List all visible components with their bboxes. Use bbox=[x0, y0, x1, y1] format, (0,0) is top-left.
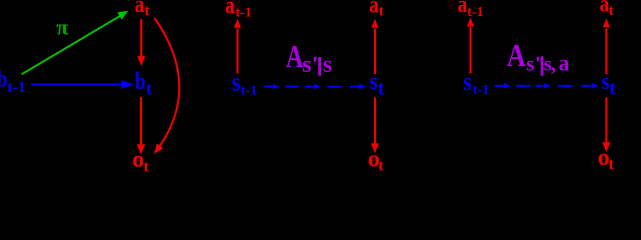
svg-text:a: a bbox=[225, 0, 235, 18]
svg-text:s: s bbox=[526, 52, 534, 76]
svg-text:A: A bbox=[507, 39, 527, 74]
svg-text:π: π bbox=[56, 14, 68, 39]
node a_t-1 (panel 2) bbox=[225, 0, 252, 20]
node o_t (panel 1) bbox=[132, 147, 149, 176]
wire red curved arrow a_t to o_t bbox=[154, 18, 179, 154]
svg-text:s: s bbox=[302, 52, 311, 78]
node b_t-1 bbox=[0, 66, 26, 97]
svg-text:a: a bbox=[559, 50, 570, 76]
svg-text:t: t bbox=[379, 4, 384, 20]
svg-text:t: t bbox=[378, 78, 385, 100]
label A_s'|s,a bbox=[507, 39, 569, 76]
svg-text:t-1: t-1 bbox=[236, 5, 252, 20]
wire red arrow s_t-1 up to a_t-1 bbox=[234, 19, 241, 74]
node a_t (panel 3) bbox=[600, 0, 614, 19]
wire red arrow s_t up to a_t (panel 3) bbox=[603, 19, 610, 75]
node s_t (panel 3) bbox=[602, 67, 617, 99]
svg-text:a: a bbox=[135, 0, 145, 17]
wire blue dashed arrow s_t-1 to s_t (panel 2) bbox=[264, 84, 366, 90]
wire blue dashed arrow s_t-1 to s_t (panel 3) bbox=[495, 83, 599, 89]
node a_t (panel 2) bbox=[369, 0, 384, 20]
wire red arrow s_t down to o_t (panel 3) bbox=[602, 98, 610, 153]
node s_t (panel 2) bbox=[370, 67, 385, 99]
svg-text:t-1: t-1 bbox=[467, 5, 483, 20]
wire red arrow b_t to o_t bbox=[137, 97, 145, 155]
svg-text:b: b bbox=[135, 68, 145, 95]
node s_t-1 (panel 2) bbox=[232, 69, 257, 98]
label A_s'|s bbox=[286, 40, 332, 78]
node s_t-1 (panel 3) bbox=[463, 68, 489, 97]
node b_t bbox=[135, 68, 152, 99]
svg-text:t: t bbox=[609, 77, 616, 99]
node o_t (panel 3) bbox=[598, 145, 615, 173]
svg-text:a: a bbox=[369, 0, 379, 18]
wire blue arrow b_t-1 to b_t bbox=[31, 80, 134, 89]
wire red arrow s_t up to a_t (panel 2) bbox=[371, 19, 378, 74]
wire green arrow b_t-1 to a_t bbox=[22, 11, 129, 75]
svg-text:t: t bbox=[608, 154, 614, 173]
svg-text:s: s bbox=[323, 52, 332, 78]
svg-text:t: t bbox=[144, 159, 150, 176]
wire red arrow a_t to b_t bbox=[137, 19, 145, 66]
node a_t-1 (panel 3) bbox=[458, 0, 484, 20]
wire red arrow s_t down to o_t (panel 2) bbox=[371, 98, 379, 154]
svg-text:s: s bbox=[232, 69, 240, 97]
svg-text:t: t bbox=[144, 2, 150, 19]
node o_t (panel 2) bbox=[368, 147, 384, 175]
svg-text:a: a bbox=[458, 0, 468, 17]
svg-text:t: t bbox=[609, 3, 614, 19]
wire red arrow s_t-1 up to a_t-1 (panel 3) bbox=[467, 18, 474, 74]
svg-text:t-1: t-1 bbox=[7, 79, 26, 96]
svg-text:,: , bbox=[551, 52, 556, 76]
svg-text:A: A bbox=[286, 40, 304, 75]
svg-text:t: t bbox=[378, 158, 384, 175]
svg-text:t-1: t-1 bbox=[473, 83, 489, 98]
svg-text:t-1: t-1 bbox=[241, 83, 257, 98]
svg-text:t: t bbox=[146, 79, 152, 99]
node a_t (panel 1) bbox=[135, 0, 151, 19]
